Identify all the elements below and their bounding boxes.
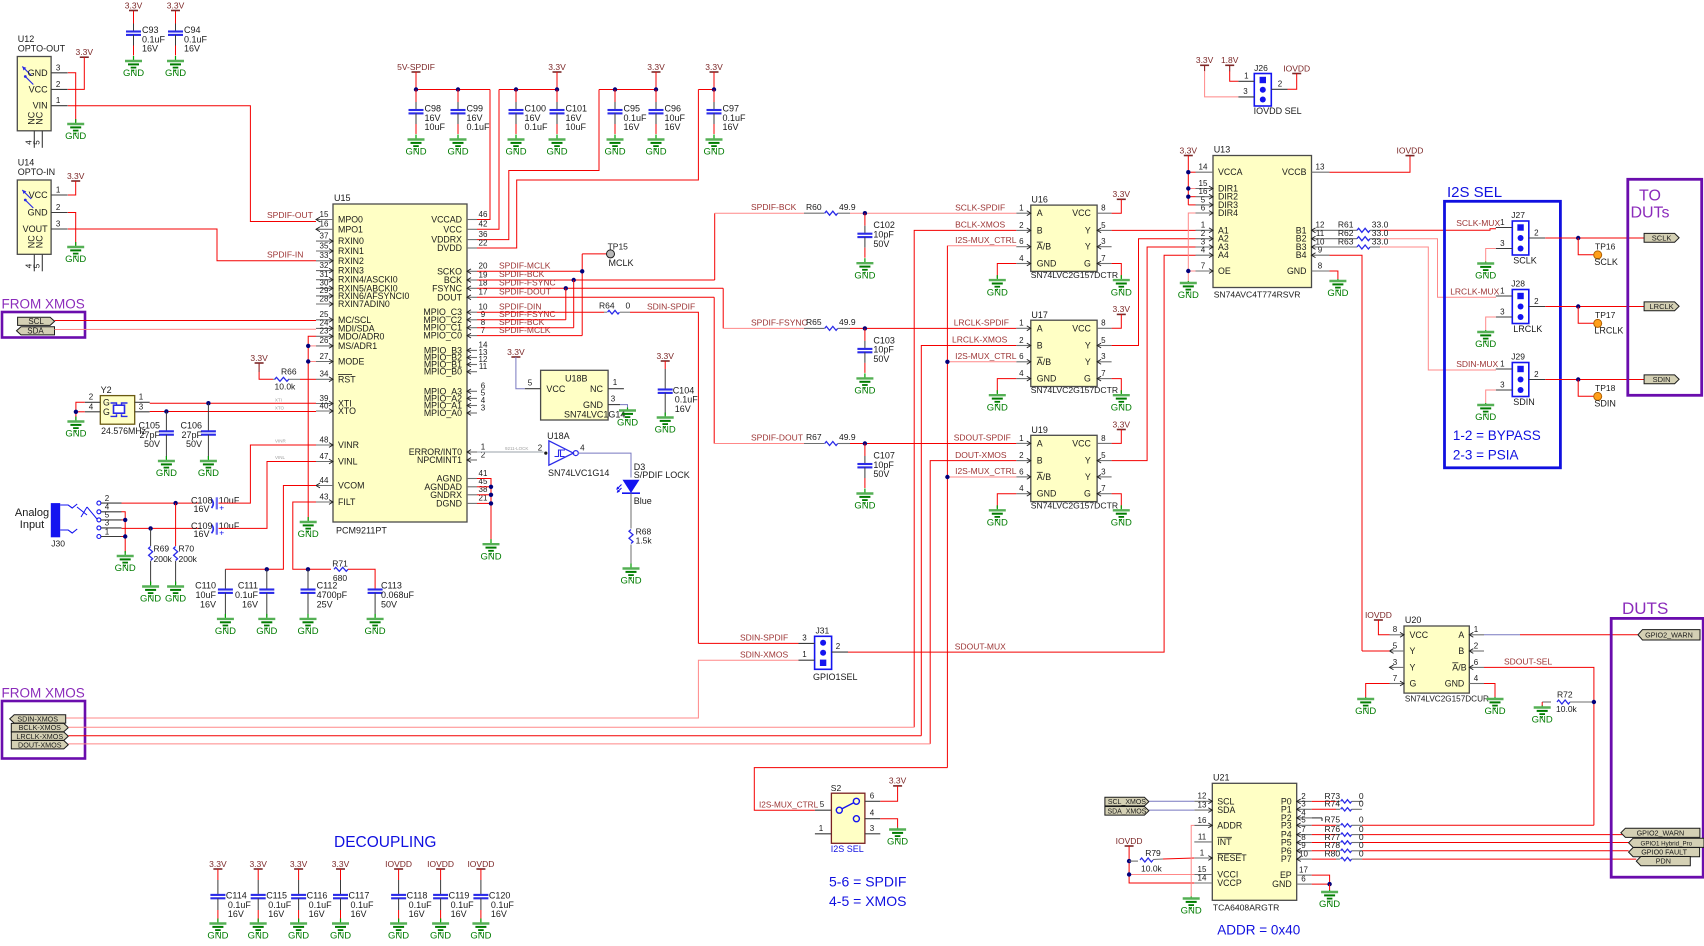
power flag 3.3V for U14 bbox=[67, 171, 85, 181]
svg-text:2: 2 bbox=[836, 642, 841, 651]
wire U20 Y pin5 from U13 B4 bbox=[1362, 650, 1390, 652]
resistor R66 10.0k bbox=[273, 378, 300, 380]
svg-text:GND: GND bbox=[1178, 290, 1199, 301]
svg-text:SCLK: SCLK bbox=[1513, 256, 1537, 266]
svg-text:NC: NC bbox=[34, 235, 44, 248]
junction bbox=[306, 359, 310, 363]
svg-text:G: G bbox=[1084, 374, 1091, 384]
wire 3.3V rail4 bbox=[713, 72, 715, 90]
svg-text:VCC: VCC bbox=[1072, 208, 1091, 218]
wire J27 pin3 to ground bbox=[1486, 249, 1496, 262]
svg-text:3: 3 bbox=[481, 403, 486, 412]
capacitor C111 0.1uF bbox=[266, 569, 268, 589]
svg-text:7: 7 bbox=[1101, 484, 1106, 493]
svg-text:GND: GND bbox=[1532, 715, 1553, 726]
pin 6 MPIO_A3 of U15 bbox=[467, 389, 477, 394]
pin 14 VCCP of U21 bbox=[1194, 882, 1212, 884]
resistor R76 0 bbox=[1312, 834, 1336, 836]
svg-text:VCC: VCC bbox=[29, 190, 49, 200]
svg-text:3: 3 bbox=[802, 633, 807, 642]
ground bbox=[1484, 697, 1505, 717]
wire U21 EP + GND to ground bbox=[1312, 875, 1330, 884]
svg-text:MPIO_A0: MPIO_A0 bbox=[424, 408, 462, 418]
wire SCKO SPDIF-MCLK row bbox=[477, 270, 582, 272]
ground bbox=[215, 614, 236, 637]
wire R63 to J29 pin1 bbox=[1380, 247, 1496, 370]
svg-text:SPDIF-DOUT: SPDIF-DOUT bbox=[751, 433, 803, 443]
svg-text:GND: GND bbox=[1037, 374, 1057, 384]
ground bbox=[645, 135, 666, 158]
svg-text:I2S SEL: I2S SEL bbox=[831, 844, 864, 854]
ground bbox=[288, 919, 309, 942]
resistor R60 49.9 bbox=[804, 212, 825, 214]
svg-text:Y: Y bbox=[1085, 242, 1091, 252]
power flag 3.3V for S2 bbox=[889, 776, 907, 786]
ground bbox=[470, 919, 491, 942]
svg-text:VINL: VINL bbox=[275, 455, 286, 460]
box TO DUTs bbox=[1628, 179, 1702, 395]
pin 2 of J30 bbox=[101, 502, 122, 504]
junction bbox=[572, 278, 576, 282]
svg-text:49.9: 49.9 bbox=[839, 202, 856, 212]
svg-text:2: 2 bbox=[56, 203, 61, 212]
svg-text:10uF: 10uF bbox=[219, 521, 240, 531]
svg-text:SDIN: SDIN bbox=[1594, 398, 1616, 408]
svg-text:1: 1 bbox=[105, 527, 110, 536]
junction bbox=[489, 485, 493, 489]
wire TP17 row to output flag bbox=[1545, 306, 1644, 308]
box DUTS bbox=[1611, 618, 1703, 877]
power flag 3.3V for U19 bbox=[1113, 419, 1131, 429]
wire B4 down to U20 Y bbox=[1330, 255, 1363, 651]
wire Y2 left pins to ground bbox=[76, 402, 85, 420]
pin 42 VCC of U15 bbox=[467, 228, 477, 230]
pin 2 B of U20 bbox=[1469, 649, 1484, 654]
pin 2 NPCMINT1 of U15 bbox=[467, 458, 477, 463]
pin 46 VCCAD of U15 bbox=[467, 219, 477, 221]
wire R60 to U16 pin1 bbox=[850, 212, 1016, 214]
pin 3 A3 of U13 bbox=[1196, 245, 1214, 250]
svg-text:DUTS: DUTS bbox=[1622, 599, 1668, 618]
svg-text:1: 1 bbox=[1200, 848, 1205, 857]
connector J30 Analog Input jack bbox=[51, 501, 101, 538]
junction bbox=[863, 441, 867, 445]
pin 2 GND of U14 bbox=[51, 212, 68, 214]
svg-text:37: 37 bbox=[320, 231, 329, 240]
svg-text:2: 2 bbox=[1019, 221, 1024, 230]
svg-text:FROM XMOS: FROM XMOS bbox=[2, 686, 85, 701]
pin 1 A of U17 bbox=[1016, 326, 1031, 331]
svg-text:16V: 16V bbox=[675, 404, 691, 414]
wire U12 pin1 VIN to SPDIF-OUT (U15 pin 15) bbox=[68, 106, 316, 222]
svg-text:B: B bbox=[1037, 225, 1043, 235]
svg-text:3: 3 bbox=[1393, 658, 1398, 667]
svg-text:2: 2 bbox=[89, 392, 94, 401]
svg-text:R80: R80 bbox=[1325, 849, 1341, 859]
svg-text:3.3V: 3.3V bbox=[125, 0, 143, 10]
ground bbox=[430, 919, 451, 942]
power flag 3.3V for U16 bbox=[1113, 189, 1131, 199]
svg-text:VCC: VCC bbox=[1072, 323, 1091, 333]
svg-text:RXIN2: RXIN2 bbox=[338, 256, 364, 266]
svg-text:5V-SPDIF: 5V-SPDIF bbox=[397, 62, 435, 72]
capacitor C96 bbox=[649, 90, 686, 135]
svg-text:GND: GND bbox=[505, 147, 526, 158]
pin 1 A1 of U13 bbox=[1196, 228, 1214, 233]
svg-text:A: A bbox=[1037, 323, 1043, 333]
wire DOUT-XMOS to U19 pin2 bbox=[930, 461, 1016, 744]
wire SPDIF-BCK drop to MPIO_C1 bbox=[573, 280, 575, 328]
svg-text:1: 1 bbox=[1500, 286, 1505, 295]
svg-text:3.3V: 3.3V bbox=[889, 776, 907, 786]
ground bbox=[165, 56, 186, 79]
wire 3.3V rail2 bbox=[556, 72, 558, 90]
svg-text:5: 5 bbox=[1301, 816, 1306, 825]
svg-text:RXIN1: RXIN1 bbox=[338, 246, 364, 256]
junction bbox=[654, 87, 658, 91]
svg-text:R67: R67 bbox=[806, 432, 822, 442]
pin 1 A of U16 bbox=[1016, 211, 1031, 216]
power flag 3.3V for U18B bbox=[507, 347, 525, 357]
ground bbox=[388, 919, 409, 942]
svg-text:6: 6 bbox=[1019, 237, 1024, 246]
pin 4 P2 of U21 bbox=[1297, 816, 1312, 821]
wire IOVDD rail down to VCCI/VCCP bbox=[1129, 846, 1194, 883]
pin 9 MPIO_C2 of U15 bbox=[467, 317, 477, 322]
box I2S SEL bbox=[1445, 201, 1561, 468]
pin 6 DIR4 of U13 bbox=[1196, 211, 1214, 216]
svg-text:SDOUT-SEL: SDOUT-SEL bbox=[1504, 656, 1552, 666]
svg-text:16V: 16V bbox=[242, 599, 258, 609]
pin 6 of S2 bbox=[865, 800, 880, 802]
pin 43 FILT of U15 bbox=[316, 500, 333, 505]
pin 13 MPIO_B2 of U15 bbox=[467, 355, 477, 360]
power flag 3.3V above C114 bbox=[209, 859, 227, 869]
svg-text:Blue: Blue bbox=[634, 496, 652, 506]
pin 6 AB of U19 bbox=[1016, 475, 1031, 480]
pin 1 of J31 bbox=[799, 659, 815, 661]
pin 3 GND of U18B bbox=[608, 404, 620, 406]
pin 8 MPIO_C1 of U15 bbox=[467, 325, 477, 330]
junction bbox=[555, 87, 559, 91]
junction bbox=[148, 526, 152, 530]
svg-text:SPDIF-OUT: SPDIF-OUT bbox=[267, 210, 313, 220]
svg-text:3.3V: 3.3V bbox=[250, 353, 268, 363]
pin 8 VCC of U16 bbox=[1097, 212, 1112, 214]
wire R71 to C113 bbox=[348, 569, 375, 589]
svg-text:3: 3 bbox=[1500, 380, 1505, 389]
wire I2S-MUX_CTRL to U19 pin6 bbox=[947, 476, 1016, 478]
svg-text:FILT: FILT bbox=[338, 497, 356, 507]
svg-text:SN74LVC2G157DCTR: SN74LVC2G157DCTR bbox=[1031, 270, 1118, 280]
pin 6 AB of U20 bbox=[1469, 665, 1484, 670]
svg-text:XTI: XTI bbox=[275, 398, 282, 403]
svg-text:VIN: VIN bbox=[33, 101, 48, 111]
wire down to TP18 bbox=[1578, 380, 1593, 397]
svg-text:TP16: TP16 bbox=[1595, 242, 1616, 252]
svg-text:R70: R70 bbox=[179, 544, 195, 554]
wire LRCLK-XMOS long bbox=[68, 735, 921, 737]
wire U20 A/B pin6 SDOUT-SEL bbox=[1484, 667, 1594, 825]
pin 1 of S2 bbox=[815, 833, 832, 835]
svg-text:GND: GND bbox=[1181, 906, 1202, 917]
pin 9 B4 of U13 bbox=[1312, 253, 1330, 258]
svg-text:GND: GND bbox=[115, 563, 136, 574]
pin 3 of S2 bbox=[865, 833, 880, 835]
power flag IOVDD above C120 bbox=[467, 859, 494, 869]
wire SDIN-SPDIF into J31 pin3 bbox=[698, 642, 798, 644]
svg-text:J27: J27 bbox=[1511, 210, 1525, 220]
svg-text:R79: R79 bbox=[1145, 848, 1161, 858]
pin 1 RESET of U21 bbox=[1194, 856, 1212, 861]
junction bbox=[1186, 195, 1190, 199]
svg-text:GND: GND bbox=[645, 147, 666, 158]
svg-text:3.3V: 3.3V bbox=[656, 351, 674, 361]
svg-text:10uF: 10uF bbox=[566, 122, 587, 132]
pin 3 Y of U16 bbox=[1097, 244, 1112, 249]
svg-text:49.9: 49.9 bbox=[839, 432, 856, 442]
power flag 3.3V above C94 bbox=[167, 0, 185, 10]
ground bbox=[1532, 706, 1553, 726]
pin 35 RXIN1 of U15 bbox=[316, 249, 333, 254]
svg-text:4: 4 bbox=[870, 809, 875, 818]
capacitor C97 bbox=[707, 90, 747, 135]
ground bbox=[365, 614, 386, 637]
ground bbox=[987, 390, 1008, 413]
svg-text:16: 16 bbox=[1198, 816, 1207, 825]
pin 5 of U18B bbox=[525, 388, 541, 390]
power flag 3.3V for U12 bbox=[76, 47, 94, 57]
svg-text:B: B bbox=[1037, 456, 1043, 466]
svg-text:Analog: Analog bbox=[15, 507, 49, 519]
svg-text:Input: Input bbox=[20, 519, 44, 531]
IC U20 SN74LVC2G157DCUR bbox=[1404, 626, 1469, 693]
svg-text:9211-LOCK: 9211-LOCK bbox=[505, 446, 528, 451]
pin 3 of J31 bbox=[799, 642, 815, 644]
svg-text:2: 2 bbox=[1534, 297, 1539, 306]
svg-text:B: B bbox=[1458, 646, 1464, 656]
resistor R70 200k bbox=[175, 503, 177, 546]
svg-text:J26: J26 bbox=[1254, 63, 1268, 73]
svg-text:GND: GND bbox=[887, 837, 908, 848]
svg-text:GND: GND bbox=[1475, 271, 1496, 282]
svg-text:GPIO1 Hybrid_Pro: GPIO1 Hybrid_Pro bbox=[1641, 840, 1693, 847]
svg-text:3.3V: 3.3V bbox=[705, 62, 723, 72]
svg-text:8: 8 bbox=[1393, 625, 1398, 634]
pin 11 B2 of U13 bbox=[1312, 236, 1330, 241]
pin 6 AB of U16 bbox=[1016, 244, 1031, 249]
junction bbox=[580, 269, 584, 273]
svg-text:VINR: VINR bbox=[338, 440, 359, 450]
svg-text:IOVDD: IOVDD bbox=[1397, 145, 1424, 155]
svg-text:VINR: VINR bbox=[275, 438, 287, 443]
IC U14 OPTO-IN bbox=[17, 180, 51, 254]
pin 1 VIN of U12 bbox=[51, 105, 68, 107]
pin 31 RXIN4/ASCKI0 of U15 bbox=[316, 277, 333, 282]
svg-text:GND: GND bbox=[1287, 266, 1307, 276]
svg-text:GND: GND bbox=[987, 402, 1008, 413]
wire VCC of U17 to 3.3V bbox=[1112, 314, 1122, 328]
ground bbox=[156, 456, 177, 479]
svg-text:1.5k: 1.5k bbox=[636, 536, 653, 546]
wire TP16 row to output flag bbox=[1545, 237, 1644, 239]
svg-text:SDIN-SPDIF: SDIN-SPDIF bbox=[647, 301, 695, 311]
wire IOVDD to U20 VCC bbox=[1378, 620, 1389, 635]
pin 2 VCC of U12 bbox=[51, 88, 68, 90]
power flag IOVDD at J26 bbox=[1283, 63, 1310, 73]
power flag IOVDD above C118 bbox=[385, 859, 412, 869]
inverter U18A SN74LVC1G14 bbox=[549, 441, 578, 465]
svg-text:8: 8 bbox=[1101, 434, 1106, 443]
ground bbox=[1475, 262, 1496, 282]
wire down to TP16 bbox=[1578, 238, 1593, 255]
net flag BCLK-XMOS bbox=[11, 723, 68, 732]
wire MDO/ADR0 + MS/ADR1 + MODE strap to GND bbox=[308, 336, 316, 520]
junction bbox=[265, 567, 269, 571]
ground bbox=[987, 275, 1008, 298]
svg-text:GND: GND bbox=[388, 931, 409, 941]
svg-text:G: G bbox=[1410, 679, 1417, 689]
ground bbox=[65, 417, 86, 440]
svg-text:6: 6 bbox=[1019, 352, 1024, 361]
svg-text:G: G bbox=[1084, 489, 1091, 499]
svg-text:16V: 16V bbox=[268, 909, 284, 919]
svg-text:NC: NC bbox=[34, 111, 44, 124]
capacitor C104 0.1uF bbox=[664, 361, 666, 369]
pin 2 of Y2 bbox=[85, 401, 101, 403]
svg-text:4: 4 bbox=[580, 443, 585, 452]
svg-text:14: 14 bbox=[1198, 873, 1207, 882]
wire DOUT-XMOS long bbox=[68, 743, 930, 745]
svg-text:TO: TO bbox=[1639, 188, 1661, 205]
svg-text:48: 48 bbox=[320, 435, 329, 444]
svg-text:4: 4 bbox=[1201, 246, 1206, 255]
wire R77 output bbox=[1362, 842, 1629, 844]
pin 7 G of U20 bbox=[1390, 681, 1405, 686]
net flag GPIO2_WARN (top) bbox=[1638, 630, 1700, 640]
svg-text:27: 27 bbox=[320, 352, 329, 361]
connector J31 GPIO1SEL bbox=[815, 636, 832, 669]
pin 34 RST of U15 bbox=[316, 377, 333, 382]
svg-text:3.3V: 3.3V bbox=[249, 859, 267, 869]
svg-text:SDOUT-SPDIF: SDOUT-SPDIF bbox=[954, 433, 1011, 443]
svg-text:U16: U16 bbox=[1031, 195, 1048, 205]
svg-text:GPIO0 FAULT: GPIO0 FAULT bbox=[1641, 848, 1687, 857]
svg-text:IOVDD: IOVDD bbox=[1283, 63, 1310, 73]
pin 14 MPIO_B3 of U15 bbox=[467, 348, 477, 353]
pin 4 of Y2 bbox=[85, 411, 101, 413]
svg-text:/B: /B bbox=[1043, 242, 1051, 252]
svg-text:G: G bbox=[103, 407, 110, 417]
svg-text:GND: GND bbox=[854, 501, 875, 512]
svg-text:8: 8 bbox=[1318, 261, 1323, 270]
svg-text:OPTO-IN: OPTO-IN bbox=[18, 167, 55, 177]
svg-text:GND: GND bbox=[655, 425, 676, 436]
pin 15 MPO0 of U15 bbox=[316, 217, 333, 222]
pin 2 of J31 bbox=[832, 651, 848, 653]
wire U20 A pin1 to GPIO2_WARN flag bbox=[1484, 634, 1520, 636]
svg-text:SCLK: SCLK bbox=[1652, 233, 1672, 242]
capacitor C108 10uF electrolytic bbox=[212, 497, 225, 512]
pin 3 of J30 bbox=[101, 527, 122, 529]
svg-text:SPDIF-DOUT: SPDIF-DOUT bbox=[499, 287, 551, 297]
pin 44 VCOM of U15 bbox=[316, 483, 333, 488]
pin 1 of J30 bbox=[101, 536, 122, 538]
wire GND pin of U17 bbox=[997, 379, 1016, 394]
wire R65 to U17 pin1 bbox=[850, 327, 1016, 329]
IC U13 SN74AVC4T774RSVR bbox=[1213, 156, 1312, 288]
pin 15 DIR1 of U13 bbox=[1196, 186, 1214, 191]
power flag IOVDD for U21 bbox=[1116, 836, 1143, 846]
connector J27 SCLK bbox=[1512, 221, 1529, 255]
svg-text:RST: RST bbox=[338, 374, 356, 384]
wire SPDIF-FSYNC drop to MPIO_C2 bbox=[565, 288, 567, 320]
wire U14 pin2 GND down bbox=[68, 213, 76, 246]
svg-text:MPIO_B0: MPIO_B0 bbox=[424, 367, 462, 377]
svg-text:C110: C110 bbox=[195, 580, 216, 590]
wire DIR4/OE strap to ground bbox=[1188, 213, 1195, 281]
svg-text:U19: U19 bbox=[1031, 425, 1048, 435]
svg-text:GPIO1SEL: GPIO1SEL bbox=[813, 672, 858, 682]
power flag 1.8V for J26 bbox=[1221, 55, 1239, 71]
wire SDOUT-MUX from J31 pin2 to U13 A4 bbox=[848, 255, 1196, 652]
svg-text:16V: 16V bbox=[491, 909, 507, 919]
svg-text:C116: C116 bbox=[307, 890, 328, 900]
ground bbox=[123, 56, 144, 79]
wire rail2 drop to U15 pin42 VCC bbox=[477, 90, 499, 230]
svg-text:GND: GND bbox=[1272, 879, 1292, 889]
wire R80 output bbox=[1362, 858, 1636, 860]
wire U15 ground pins 41/45/38/21 bbox=[477, 479, 491, 543]
svg-text:R74: R74 bbox=[1325, 799, 1341, 809]
pin 13 VCCB of U13 bbox=[1312, 171, 1330, 173]
svg-text:TCA6408ARGTR: TCA6408ARGTR bbox=[1213, 903, 1279, 913]
wire LRCLK-XMOS to U17 pin2 bbox=[921, 346, 1016, 736]
svg-text:12: 12 bbox=[1198, 792, 1207, 801]
wire J30 pin2 to C108 and VINR bbox=[122, 502, 200, 504]
svg-text:16V: 16V bbox=[309, 909, 325, 919]
ground bbox=[546, 135, 567, 158]
svg-text:RXIN7ADIN0: RXIN7ADIN0 bbox=[338, 299, 390, 309]
junction bbox=[1127, 859, 1131, 863]
svg-text:IOVDD: IOVDD bbox=[427, 859, 454, 869]
svg-text:9: 9 bbox=[1318, 246, 1323, 255]
svg-text:7: 7 bbox=[1201, 261, 1206, 270]
svg-text:DGND: DGND bbox=[436, 498, 462, 508]
svg-text:PDN: PDN bbox=[1656, 857, 1671, 866]
pin 24 MDI/SDA of U15 bbox=[316, 326, 333, 331]
svg-text:3.3V: 3.3V bbox=[548, 62, 566, 72]
svg-text:IOVDD: IOVDD bbox=[1116, 836, 1143, 846]
net flag PDN bbox=[1636, 857, 1690, 866]
svg-text:GND: GND bbox=[1111, 402, 1132, 413]
svg-text:0: 0 bbox=[1359, 799, 1364, 809]
wire R66 to U15 pin34 RST bbox=[300, 378, 316, 380]
wire R62 to J28 pin1 bbox=[1380, 239, 1496, 298]
svg-text:3: 3 bbox=[1101, 467, 1106, 476]
power flag 3.3V for U17 bbox=[1113, 304, 1131, 314]
svg-text:16V: 16V bbox=[193, 504, 209, 514]
capacitor C110 10uF bbox=[224, 569, 226, 589]
ground bbox=[987, 505, 1008, 528]
svg-text:4: 4 bbox=[1019, 369, 1024, 378]
svg-text:Y: Y bbox=[1410, 662, 1416, 672]
wire 3.3V rail to VCCA/DIR1/DIR2/DIR3 bbox=[1187, 156, 1189, 205]
wire U13 GND pin8 bbox=[1330, 271, 1338, 279]
svg-text:XTO: XTO bbox=[338, 406, 356, 416]
junction bbox=[1576, 236, 1580, 240]
svg-text:1-2 = BYPASS: 1-2 = BYPASS bbox=[1453, 428, 1541, 443]
